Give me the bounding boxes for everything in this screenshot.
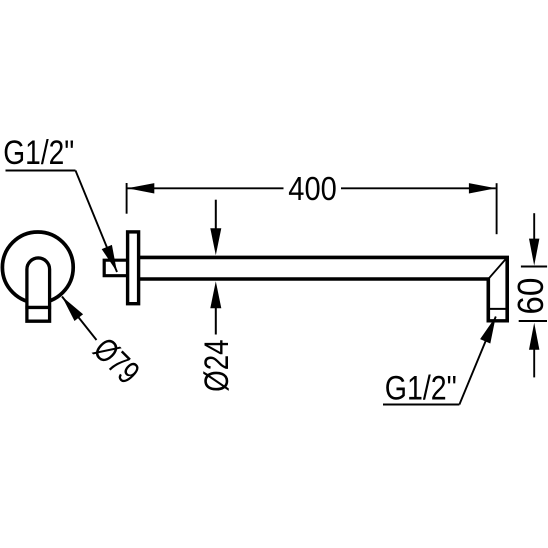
thread line on slot (front view)	[25, 306, 51, 309]
wall flange circle (front view)	[2, 232, 73, 303]
leader line G1/2 top	[76, 171, 118, 273]
leader arrow G1/2 bottom	[480, 317, 496, 344]
arrow 60 up	[529, 323, 539, 350]
shower arm slot (front view)	[27, 258, 50, 321]
wall stub connector (side view)	[104, 260, 127, 276]
dimension line Ø24 bottom	[215, 307, 217, 335]
60 tick bottom	[519, 320, 547, 322]
arrow 60 down	[529, 239, 539, 266]
extension line right (400)	[496, 183, 498, 234]
svg-text:G1/2": G1/2"	[3, 134, 74, 172]
arrow 400 left	[127, 183, 154, 193]
outlet bottom cap	[487, 319, 510, 322]
arrow Ø24 down	[210, 228, 221, 255]
leader underline G1/2 top	[6, 170, 76, 172]
flange plate (side view)	[128, 232, 139, 304]
leader line Ø79	[62, 297, 97, 341]
dimension line 400 left segment	[127, 187, 283, 189]
dimension line Ø24 top	[215, 200, 217, 230]
svg-text:G1/2": G1/2"	[385, 370, 457, 408]
arm bottom outline	[139, 279, 489, 321]
leader arrow to circle (Ø79)	[62, 297, 83, 322]
dimension line 400 right segment	[341, 187, 496, 189]
leader arrow G1/2 top	[102, 245, 117, 272]
extension line left (400)	[126, 183, 128, 214]
svg-text:400: 400	[288, 170, 337, 207]
leader line G1/2 bottom	[459, 317, 495, 405]
arrow Ø24 up	[210, 281, 221, 308]
arm top outline	[139, 257, 508, 320]
arrow 400 right	[469, 183, 496, 193]
leader underline G1/2 bottom	[383, 404, 459, 406]
corner chamfer line	[488, 257, 507, 279]
svg-text:60: 60	[510, 278, 548, 315]
svg-text:Ø24: Ø24	[198, 339, 236, 392]
outlet thread line	[488, 308, 507, 310]
60 dim upper line	[533, 213, 535, 240]
60 tick top	[521, 266, 547, 268]
60 dim lower line	[533, 348, 535, 377]
